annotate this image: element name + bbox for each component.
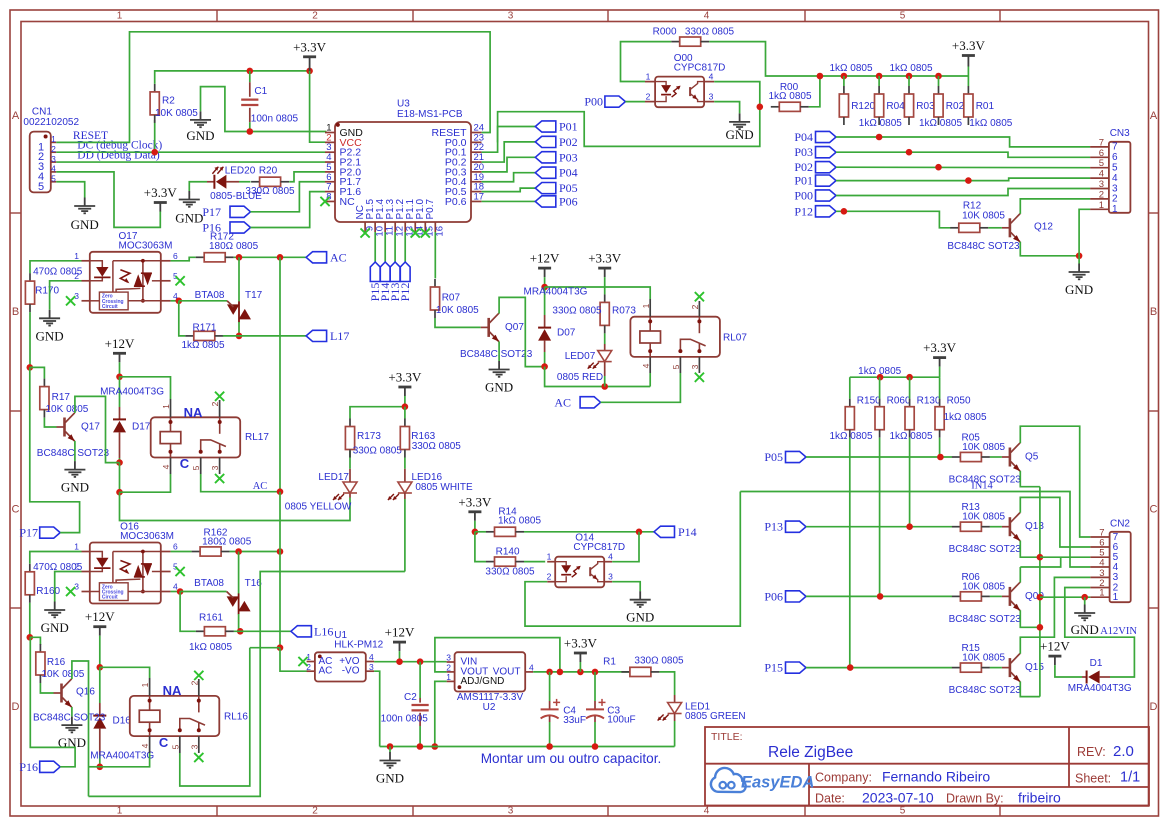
svg-text:330Ω 0805: 330Ω 0805 bbox=[634, 656, 684, 667]
svg-text:P05: P05 bbox=[764, 450, 783, 464]
svg-text:Q07: Q07 bbox=[505, 322, 524, 333]
svg-text:1kΩ 0805: 1kΩ 0805 bbox=[889, 63, 933, 74]
diode D1 MRA4004T3G bbox=[1082, 671, 1110, 684]
port flag P13 bbox=[786, 521, 807, 532]
junction LED07 bottom bbox=[601, 383, 608, 390]
svg-text:MRA4004T3G: MRA4004T3G bbox=[100, 387, 164, 398]
wire Q16 emitter to GND bbox=[71, 707, 73, 717]
EasyEDA logo bbox=[711, 768, 814, 792]
wire U1 pin4 to U2 VIN bbox=[374, 661, 447, 663]
wire T17 MT1 to L17 net bbox=[238, 322, 240, 336]
wire to RL07 pin4 bbox=[649, 373, 651, 387]
wire RL17 pin5 to AC net bbox=[201, 474, 280, 492]
wire R173 top to +3.3V bbox=[350, 407, 405, 419]
svg-text:Q12: Q12 bbox=[1034, 221, 1053, 232]
svg-text:10K 0805: 10K 0805 bbox=[962, 210, 1005, 221]
junction R2/DC bbox=[151, 149, 158, 156]
junction +3.3V rail bbox=[817, 73, 824, 80]
junction C2 bottom bbox=[417, 743, 424, 750]
ground GND (O00) bbox=[729, 113, 750, 129]
svg-text:4: 4 bbox=[1099, 169, 1104, 180]
capacitor C1 plates bbox=[241, 100, 258, 105]
connector CN3 bbox=[1090, 142, 1130, 213]
LED1 body bbox=[668, 703, 682, 714]
wire R170 bottom to junction bbox=[29, 312, 31, 367]
svg-text:NA: NA bbox=[163, 683, 182, 698]
svg-text:2: 2 bbox=[446, 662, 451, 672]
svg-text:R04: R04 bbox=[886, 101, 905, 112]
svg-text:5: 5 bbox=[900, 806, 906, 817]
power +3.3V (R14) bbox=[468, 512, 481, 521]
svg-text:R2: R2 bbox=[162, 96, 175, 107]
resistor R162 180R 0805 bbox=[192, 547, 230, 556]
junction C2 top bbox=[417, 658, 424, 665]
wire Q00 emitter bbox=[1020, 610, 1040, 627]
junction T17 bottom / L17 bbox=[236, 333, 243, 340]
LED07 body bbox=[598, 351, 612, 362]
svg-text:1: 1 bbox=[1112, 204, 1118, 215]
wire +3.3V rail to R03 bbox=[908, 76, 910, 86]
junction R173/R163 bbox=[402, 403, 409, 410]
wire Q00 collector up bbox=[1019, 567, 1021, 583]
svg-text:1: 1 bbox=[74, 542, 79, 552]
svg-text:D: D bbox=[12, 701, 20, 713]
wire GND drop bbox=[389, 747, 391, 753]
wire DC: CN1 pin2 to U3 pin3 bbox=[56, 151, 325, 153]
ground GND (PSU rail) bbox=[380, 752, 401, 768]
transistor Q13 BC848C SOT23 bbox=[1002, 513, 1020, 541]
svg-text:P05: P05 bbox=[559, 181, 578, 195]
wire P01 to CN3 bbox=[836, 178, 1090, 181]
svg-text:10K 0805: 10K 0805 bbox=[155, 108, 198, 119]
svg-text:+3.3V: +3.3V bbox=[458, 494, 492, 509]
port flag P16 bbox=[40, 761, 61, 772]
svg-text:R120: R120 bbox=[851, 101, 875, 112]
wire +3.3V stem down bbox=[404, 396, 406, 407]
wire O14 pin3 to GND bbox=[612, 582, 640, 592]
resistor R16 10K 0805 bbox=[36, 644, 45, 683]
wire +3.3V rail to R02 bbox=[938, 76, 940, 86]
svg-text:3: 3 bbox=[709, 92, 714, 102]
ground GND (Q16) bbox=[61, 717, 82, 733]
title block texts bbox=[711, 731, 1140, 806]
transistor Q07 BC848C SOT23 bbox=[481, 313, 499, 341]
svg-text:L17: L17 bbox=[330, 329, 349, 343]
svg-text:L16: L16 bbox=[314, 624, 333, 638]
O00 pin numbers bbox=[646, 71, 714, 101]
svg-text:MRA4004T3G: MRA4004T3G bbox=[524, 287, 588, 298]
wire AC net vertical (upper) bbox=[279, 257, 281, 491]
svg-text:330Ω 0805: 330Ω 0805 bbox=[552, 306, 602, 317]
wire Q5 emitter bbox=[1020, 471, 1040, 487]
svg-text:1kΩ 0805: 1kΩ 0805 bbox=[969, 118, 1013, 129]
wire +3.3V stem to rail bbox=[967, 67, 969, 77]
svg-text:GND: GND bbox=[485, 380, 513, 395]
wire U2 pin2 VOUT loop bbox=[435, 638, 560, 672]
wire R170 top to O17 pin1 bbox=[30, 261, 82, 273]
svg-text:6: 6 bbox=[173, 542, 178, 552]
svg-text:Company:: Company: bbox=[815, 771, 872, 785]
svg-text:P06: P06 bbox=[764, 589, 783, 603]
svg-text:R160: R160 bbox=[36, 586, 60, 597]
svg-text:ADJ/GND: ADJ/GND bbox=[461, 676, 505, 687]
svg-text:1kΩ 0805: 1kΩ 0805 bbox=[889, 431, 933, 442]
wire net P00 long route bbox=[498, 107, 760, 147]
port flag P05 bbox=[535, 183, 556, 194]
wire R161/T16 to L16 flag bbox=[234, 630, 291, 632]
power +12V (RL07) bbox=[538, 268, 551, 277]
svg-text:P12: P12 bbox=[794, 204, 813, 218]
svg-text:10K 0805: 10K 0805 bbox=[42, 669, 85, 680]
wire RL16 pin4 to coil node bbox=[100, 753, 150, 767]
junction ADJ/GND rail bbox=[432, 743, 439, 750]
port flag P02 (CN3 side) bbox=[816, 162, 837, 173]
ground GND (CN1 pin5) bbox=[74, 198, 95, 214]
svg-text:TITLE:: TITLE: bbox=[711, 731, 743, 743]
LED20 0805-BLUE bbox=[214, 175, 226, 189]
wire RL16 pin5 to AC branch bbox=[180, 648, 250, 786]
wire R050 to row bbox=[939, 438, 941, 457]
svg-text:1kΩ 0805: 1kΩ 0805 bbox=[919, 118, 963, 129]
resistor R160 470R 0805 bbox=[25, 564, 34, 603]
svg-text:Drawn By:: Drawn By: bbox=[946, 792, 1004, 806]
wire DD: CN1 pin3 to U3 pin4 bbox=[56, 161, 325, 163]
resistor R2 10K 0805 bbox=[150, 84, 159, 123]
svg-text:1kΩ 0805: 1kΩ 0805 bbox=[943, 412, 987, 423]
wire GND net vertical (CN2) bbox=[1039, 487, 1041, 697]
svg-text:4: 4 bbox=[369, 652, 374, 662]
svg-text:2: 2 bbox=[1099, 189, 1104, 200]
wire U3 P0.1 to flag P02 bbox=[482, 142, 536, 162]
wire T16 MT2 bbox=[238, 552, 240, 594]
svg-text:2: 2 bbox=[306, 662, 311, 672]
wire coil node rail RL07 bbox=[545, 367, 651, 387]
svg-text:MRA4004T3G: MRA4004T3G bbox=[1068, 683, 1132, 694]
svg-text:4: 4 bbox=[51, 164, 56, 174]
svg-text:fribeiro: fribeiro bbox=[1018, 790, 1061, 806]
no-connect X on O16 pin5 bbox=[176, 567, 185, 576]
ground GND (Q07) bbox=[489, 361, 510, 377]
svg-text:2: 2 bbox=[189, 680, 199, 685]
wire Q17 emitter to GND bbox=[74, 441, 76, 461]
wire Q16 collector down bbox=[72, 661, 89, 796]
junction C3 bottom bbox=[592, 743, 599, 750]
junction C4 bottom bbox=[546, 743, 553, 750]
svg-text:R03: R03 bbox=[916, 101, 935, 112]
svg-text:BC848C SOT23: BC848C SOT23 bbox=[949, 544, 1022, 555]
wire U2 VOUT +3.3V rail bbox=[533, 671, 630, 673]
port flag P14 (vertical) bbox=[380, 262, 390, 282]
transistor Q12 BC848C SOT23 bbox=[1002, 214, 1020, 242]
diode D07 body bbox=[538, 328, 551, 341]
svg-text:D07: D07 bbox=[557, 328, 576, 339]
svg-text:BC848C SOT23: BC848C SOT23 bbox=[949, 685, 1022, 696]
svg-text:330Ω 0805: 330Ω 0805 bbox=[685, 26, 735, 37]
wire Q15 emitter bbox=[1020, 682, 1040, 697]
wire U3 pin16 P0.7 to R07 bbox=[434, 232, 436, 278]
junction GND drop (PSU) bbox=[387, 743, 394, 750]
no-connect X on U3 pin9 bbox=[361, 228, 370, 237]
port flag L17 bbox=[306, 330, 327, 341]
ground GND (LED20) bbox=[179, 191, 200, 207]
wire U2 pin1 ADJ/GND down bbox=[435, 681, 447, 746]
svg-text:P17: P17 bbox=[19, 526, 38, 540]
optocoupler O14 CYPC817D bbox=[555, 557, 604, 588]
junction AC net column bbox=[277, 254, 284, 261]
wire P06 row bbox=[806, 595, 952, 597]
power +12V (RL16) bbox=[93, 627, 106, 636]
wire R000 to O00 pin1 bbox=[621, 42, 672, 82]
svg-text:1kΩ 0805: 1kΩ 0805 bbox=[829, 63, 873, 74]
wire R2 bottom to DC net bbox=[154, 120, 156, 152]
svg-text:1: 1 bbox=[446, 672, 451, 682]
svg-text:1/1: 1/1 bbox=[1120, 770, 1140, 786]
O17 pin stubs bbox=[82, 261, 171, 301]
svg-text:AC: AC bbox=[319, 666, 333, 677]
svg-text:4: 4 bbox=[1113, 562, 1119, 573]
junction O17 pin4 bbox=[176, 298, 183, 305]
relay RL17 bbox=[151, 417, 241, 457]
U1 pin names/numbers bbox=[306, 652, 374, 677]
port flag P06 bbox=[786, 591, 807, 602]
svg-text:4: 4 bbox=[1112, 173, 1118, 184]
capacitor C3 100uF bbox=[586, 672, 606, 747]
resistor R06 10K 0805 bbox=[952, 592, 990, 601]
svg-text:+12V: +12V bbox=[85, 609, 115, 624]
port flag P04 bbox=[535, 167, 556, 178]
wire P04 to CN3 bbox=[836, 137, 1090, 147]
junction Q13 emitter / pin5 net bbox=[1037, 554, 1044, 561]
svg-text:C: C bbox=[12, 504, 20, 516]
svg-text:5: 5 bbox=[1112, 163, 1118, 174]
resistor R14 1k 0805 bbox=[486, 527, 524, 536]
svg-text:100n 0805: 100n 0805 bbox=[251, 114, 299, 125]
wire O16 pin6 to R162 bbox=[171, 551, 192, 553]
wire to GND symbol (CN2) bbox=[1084, 597, 1086, 604]
svg-text:CN2: CN2 bbox=[1110, 519, 1130, 530]
no-connect X on O16 pin3 bbox=[66, 587, 75, 596]
svg-text:BTA08: BTA08 bbox=[194, 578, 224, 589]
svg-text:MOC3063M: MOC3063M bbox=[120, 531, 174, 542]
LED17 top stub bbox=[349, 469, 351, 482]
svg-text:GND: GND bbox=[186, 128, 214, 143]
wire AC branch horizontal bbox=[250, 647, 280, 649]
port flag P17 bbox=[40, 527, 61, 538]
svg-text:3: 3 bbox=[608, 572, 613, 582]
no-connect X on O17 pin5 bbox=[176, 276, 185, 285]
resistor R01 1k 0805 bbox=[964, 86, 973, 125]
svg-text:Q15: Q15 bbox=[1025, 662, 1044, 673]
svg-text:5: 5 bbox=[173, 562, 178, 572]
port flag P15 bbox=[786, 662, 807, 673]
svg-text:4: 4 bbox=[161, 464, 171, 469]
ground GND (C1 area) bbox=[190, 111, 211, 127]
wire +3.3V rail to R04 bbox=[878, 76, 880, 86]
diode D17 body bbox=[113, 419, 126, 432]
svg-text:470Ω 0805: 470Ω 0805 bbox=[33, 267, 83, 278]
power +3.3V (top left rail) bbox=[303, 57, 316, 71]
junction coil node / LED17 bbox=[116, 489, 123, 496]
power +3.3V (resistor bank) bbox=[962, 56, 975, 67]
svg-text:P0.7: P0.7 bbox=[425, 198, 436, 219]
O00 pin stubs bbox=[645, 82, 714, 102]
RL16 pin stubs and numbers bbox=[150, 678, 199, 753]
RL17 pin stubs and numbers bbox=[171, 399, 220, 474]
wire +3.3V rail (bank) bbox=[850, 376, 940, 378]
resistor R140 330R 0805 bbox=[486, 557, 524, 566]
junction +3.3V rail bbox=[876, 73, 883, 80]
svg-text:2: 2 bbox=[690, 304, 700, 309]
svg-text:BC848C SOT23: BC848C SOT23 bbox=[460, 349, 533, 360]
svg-text:R171: R171 bbox=[193, 323, 217, 334]
svg-text:6: 6 bbox=[1112, 152, 1118, 163]
svg-text:BTA08: BTA08 bbox=[195, 290, 225, 301]
wire P17 to R17/R170 junction bbox=[30, 367, 80, 532]
svg-text:1: 1 bbox=[51, 134, 56, 144]
O16 pin stubs bbox=[82, 552, 171, 592]
LED17 0805 YELLOW bbox=[349, 493, 351, 498]
svg-text:0805 WHITE: 0805 WHITE bbox=[415, 482, 473, 493]
diode D17 MRA4004T3G bbox=[113, 377, 126, 463]
svg-text:GND: GND bbox=[41, 620, 69, 635]
wire +12V to RL16 pin1 bbox=[100, 667, 150, 678]
O14 pin numbers bbox=[547, 552, 614, 582]
capacitor C2 100n 0805 bbox=[412, 662, 429, 747]
svg-text:3: 3 bbox=[1099, 179, 1104, 190]
svg-text:CYPC817D: CYPC817D bbox=[674, 63, 726, 74]
svg-text:R16: R16 bbox=[47, 657, 66, 668]
svg-text:VOUT: VOUT bbox=[493, 666, 521, 677]
port flag P16 (to U3) bbox=[230, 222, 251, 233]
wire junction to R16 bbox=[30, 637, 41, 645]
resistor R20 330R 0805 bbox=[251, 177, 289, 186]
wire R160 bottom to junction bbox=[29, 603, 31, 638]
svg-text:P12: P12 bbox=[398, 283, 412, 302]
svg-text:-VO: -VO bbox=[342, 666, 360, 677]
O17 pin numbers bbox=[74, 251, 178, 301]
relay RL07 bbox=[630, 317, 720, 357]
svg-text:P01: P01 bbox=[794, 174, 813, 188]
junction R00/P00 net bbox=[757, 104, 764, 111]
svg-text:Q17: Q17 bbox=[81, 422, 100, 433]
svg-text:R140: R140 bbox=[496, 546, 520, 557]
svg-text:GND: GND bbox=[175, 211, 203, 226]
wire O16 pin4 bbox=[171, 591, 181, 593]
svg-text:B: B bbox=[1150, 306, 1157, 318]
svg-text:1: 1 bbox=[1113, 592, 1119, 603]
svg-text:Montar um ou outro capacitor.: Montar um ou outro capacitor. bbox=[481, 751, 662, 766]
wire U3 to flag P14 bbox=[384, 232, 386, 262]
CN1 pin numbers bbox=[38, 134, 56, 193]
svg-text:LED17: LED17 bbox=[318, 472, 349, 483]
svg-text:1: 1 bbox=[140, 682, 150, 687]
svg-text:+3.3V: +3.3V bbox=[923, 340, 957, 355]
svg-text:NA: NA bbox=[184, 405, 203, 420]
port flag P05 bbox=[786, 451, 807, 462]
no-connect X on U1 pin1 bbox=[298, 657, 307, 666]
svg-text:1kΩ 0805: 1kΩ 0805 bbox=[859, 118, 903, 129]
LED1 bottom stub bbox=[674, 714, 676, 747]
capacitor C2 plates bbox=[412, 705, 429, 710]
svg-text:Date:: Date: bbox=[815, 792, 845, 806]
junction Q00 emitter bbox=[1037, 624, 1044, 631]
junction D16 top/+12V bbox=[97, 664, 104, 671]
junction R130/P13 bbox=[906, 523, 913, 530]
ground GND (CN2) bbox=[1074, 605, 1095, 621]
svg-text:2: 2 bbox=[646, 92, 651, 102]
diode D16 body bbox=[93, 716, 106, 729]
wire P16 to R16/R160 junction bbox=[30, 637, 75, 767]
svg-text:R17: R17 bbox=[52, 392, 71, 403]
svg-text:100uF: 100uF bbox=[607, 715, 635, 726]
svg-text:3: 3 bbox=[51, 154, 56, 164]
wire +3.3V stem (R14) bbox=[474, 521, 476, 532]
svg-text:4: 4 bbox=[529, 662, 534, 672]
svg-text:+12V: +12V bbox=[1040, 639, 1070, 654]
connector CN2 bbox=[1090, 532, 1130, 602]
svg-text:AC: AC bbox=[253, 481, 268, 492]
svg-text:0805 GREEN: 0805 GREEN bbox=[685, 711, 746, 722]
junction +3.3V rail bbox=[841, 73, 848, 80]
wire R160 top to O16 pin1 bbox=[30, 552, 82, 564]
wire +3.3V stem (U2) bbox=[579, 662, 581, 672]
capacitor C4 plates bbox=[541, 709, 559, 718]
wire U3 to flag P15 bbox=[374, 232, 376, 262]
svg-text:C: C bbox=[180, 456, 190, 471]
power module U1 HLK-PM12 bbox=[307, 652, 375, 681]
svg-text:A: A bbox=[1150, 110, 1158, 122]
wire CN1 pin4 to +3.3V bbox=[56, 172, 160, 228]
capacitor C3 plates bbox=[586, 709, 604, 718]
svg-text:4: 4 bbox=[140, 743, 150, 748]
svg-text:2: 2 bbox=[312, 10, 318, 21]
svg-text:D17: D17 bbox=[132, 422, 151, 433]
svg-text:3: 3 bbox=[446, 652, 451, 662]
wire U3 P0.3 to flag P04 bbox=[482, 173, 536, 182]
wire Q13 collector to CN2 pin6 bbox=[1020, 497, 1090, 547]
wire R171/T17 to L17 flag bbox=[223, 335, 306, 337]
wire coil node rail to LED16 bottom bbox=[89, 572, 405, 797]
wire Q15 collector to CN2 pin3 bbox=[1020, 577, 1090, 653]
junction Q12 emitter/CN3 pin1 bbox=[1076, 253, 1083, 260]
svg-text:Q5: Q5 bbox=[1025, 452, 1039, 463]
svg-text:A12VIN: A12VIN bbox=[1100, 626, 1137, 637]
junction D16 bottom / coil node bbox=[97, 764, 104, 771]
no-connect X on RL16 pin2 bbox=[194, 671, 203, 680]
power +12V (D1) bbox=[1048, 656, 1061, 665]
svg-text:10K 0805: 10K 0805 bbox=[962, 442, 1005, 453]
svg-text:1kΩ 0805: 1kΩ 0805 bbox=[858, 366, 902, 377]
svg-text:10K 0805: 10K 0805 bbox=[46, 404, 89, 415]
svg-text:5: 5 bbox=[38, 181, 44, 193]
capacitor C4 33uF bbox=[541, 672, 561, 747]
port flag P12 (CN3 side) bbox=[816, 206, 837, 217]
svg-text:R170: R170 bbox=[35, 286, 59, 297]
LED17 body bbox=[343, 482, 357, 493]
wire rail to R150 bbox=[849, 377, 851, 399]
LED16 0805 WHITE bbox=[404, 469, 406, 482]
svg-text:GND: GND bbox=[726, 127, 754, 142]
svg-text:4: 4 bbox=[1099, 558, 1104, 569]
svg-text:R073: R073 bbox=[612, 306, 636, 317]
resistor R1 330R 0805 bbox=[621, 667, 659, 676]
O14 pin stubs bbox=[547, 562, 612, 582]
wire O14 pin4 to P14 net bbox=[612, 532, 639, 562]
wire U3 P0.2 to flag P03 bbox=[482, 157, 536, 172]
svg-text:+12V: +12V bbox=[530, 251, 560, 266]
svg-text:0805 RED: 0805 RED bbox=[557, 372, 603, 383]
svg-text:P02: P02 bbox=[559, 135, 578, 149]
